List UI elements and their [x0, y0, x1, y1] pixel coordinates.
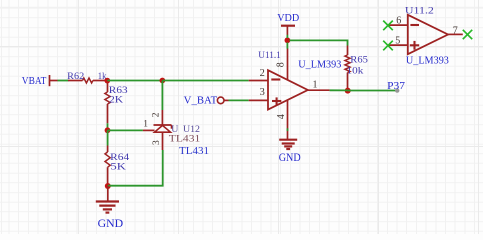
svg-text:10k: 10k	[347, 65, 364, 76]
net label P37	[387, 80, 405, 92]
svg-text:R62: R62	[67, 71, 84, 82]
wire TL431 pin 2 up to junction	[161, 81, 163, 111]
junction node above TL431	[160, 78, 166, 84]
svg-text:3: 3	[152, 140, 162, 145]
pin 4 (V-)	[287, 100, 289, 140]
svg-text:3: 3	[260, 87, 265, 98]
junction node R63/R64/TL431 ref	[105, 127, 111, 133]
resistor R64	[105, 130, 129, 184]
svg-text:4: 4	[276, 114, 287, 119]
pin 6	[388, 24, 408, 26]
svg-text:7: 7	[453, 25, 458, 36]
svg-text:5: 5	[395, 36, 400, 47]
svg-text:U11.1: U11.1	[258, 50, 281, 61]
op-amp U11.2 LM393 (unused half)	[388, 5, 463, 66]
op-amp pin 2 lead	[249, 68, 268, 80]
no-connect X pin 5	[383, 41, 393, 51]
wire R63 to junction	[107, 123, 109, 130]
svg-text:2: 2	[152, 112, 162, 117]
shunt regulator U12 TL431	[143, 110, 209, 157]
wire op-amp output to junction	[330, 89, 348, 91]
power port VDD	[277, 13, 299, 35]
wire junction to TL431 pin 3	[108, 150, 163, 186]
dangling wire end dot	[395, 88, 399, 92]
wire to op-amp pin 2	[162, 80, 248, 82]
wire junction to second junction	[107, 80, 162, 82]
major grid line vertical x=78	[78, 0, 79, 234]
svg-text:GND: GND	[98, 218, 124, 230]
net label VBAT	[22, 76, 47, 87]
no-connect X pin 6	[383, 21, 393, 31]
svg-text:V_BAT: V_BAT	[184, 95, 218, 106]
svg-text:6: 6	[396, 16, 401, 27]
wire junction to P37	[348, 90, 397, 92]
pin 7 output	[448, 33, 463, 35]
junction node R64/GND	[105, 183, 111, 189]
svg-text:VDD: VDD	[277, 13, 299, 24]
svg-text:P37: P37	[387, 80, 405, 92]
svg-text:2: 2	[260, 68, 265, 79]
resistor R65	[345, 46, 368, 89]
junction node output/R65	[345, 88, 351, 94]
svg-text:VBAT: VBAT	[22, 76, 47, 87]
pin 5	[388, 44, 408, 46]
svg-text:R65: R65	[350, 55, 368, 66]
wire V_BAT to op-amp pin 3	[229, 99, 249, 101]
pin 1 output lead	[308, 89, 330, 91]
op-amp U11.1 LM393	[258, 48, 341, 139]
wire VBAT to R62	[58, 80, 69, 82]
VBAT wire entry tick	[50, 75, 58, 86]
resistor R63	[105, 83, 128, 123]
svg-text:TL431: TL431	[169, 133, 201, 144]
port V_BAT	[184, 95, 229, 106]
wire VDD junction to R65	[290, 40, 348, 45]
ground GND (op-amp)	[279, 140, 301, 165]
no-connect X pin 7	[463, 30, 472, 39]
junction node VDD	[285, 37, 291, 43]
resistor R62	[67, 71, 106, 83]
op-amp pin 3 lead	[249, 87, 268, 100]
svg-text:TL431: TL431	[179, 146, 209, 157]
ground GND (left)	[96, 186, 123, 230]
wire junction to TL431 pin 1	[108, 129, 143, 131]
svg-text:GND: GND	[279, 152, 301, 164]
svg-text:U_LM393: U_LM393	[298, 60, 341, 71]
pin 8 (V+)	[287, 48, 289, 80]
svg-text:1: 1	[313, 80, 318, 91]
wire VDD junction down to pin 8	[286, 35, 288, 49]
svg-text:U_LM393: U_LM393	[406, 56, 449, 67]
junction node at R62/R63	[104, 78, 110, 84]
svg-text:8: 8	[275, 62, 286, 67]
svg-text:2K: 2K	[109, 95, 123, 106]
svg-text:1: 1	[143, 119, 148, 129]
svg-text:5K: 5K	[110, 162, 126, 173]
